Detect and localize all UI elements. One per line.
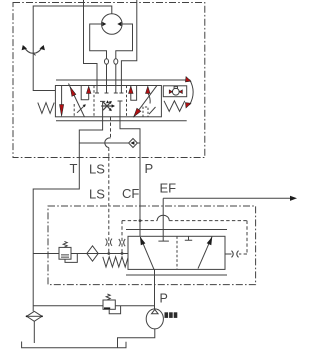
- junction node CF/LS: [139, 219, 142, 222]
- crossed flow arrows (center neutral position): [101, 102, 113, 110]
- position divider left: [93, 86, 95, 117]
- variable orifice diagonal (left section): [69, 84, 85, 118]
- coupling notch on wire B: [105, 59, 109, 64]
- dashed LS pilot box: [121, 221, 123, 253]
- flow path P to EF (throttled closed): [198, 237, 212, 269]
- check valve: [129, 139, 138, 148]
- throttled diagonal (right section): [133, 86, 156, 118]
- blocked EF port bar: [158, 240, 169, 242]
- check valve bypass line: [79, 142, 140, 144]
- wire from top edge to valve left outer port: [84, 0, 98, 86]
- pump name label: [165, 312, 169, 318]
- main valve lower housing line: [56, 120, 187, 122]
- LS control line horizontal: [33, 253, 128, 255]
- red arrow left section down: [61, 86, 63, 105]
- svg-text:P: P: [160, 291, 168, 305]
- pump suction wire: [118, 329, 155, 348]
- red arrow (right section U): [129, 86, 134, 93]
- LS pilot line from valve (dashed with hop): [110, 117, 112, 138]
- LS damping throttle (on CF-side dashed line): [119, 239, 125, 246]
- main directional valve body: [55, 86, 161, 117]
- port stub A with plug: [95, 86, 99, 94]
- priority valve position divider: [176, 236, 178, 269]
- svg-text:LS: LS: [89, 187, 105, 202]
- relief branch line: [33, 305, 154, 307]
- position divider right: [126, 86, 128, 117]
- wire motor right to valve port C: [116, 24, 133, 86]
- svg-text:T: T: [70, 161, 78, 176]
- LS pilot line between units: [108, 158, 110, 254]
- steering wheel symbol: [24, 47, 43, 54]
- junction node LS line 2: [121, 252, 124, 255]
- dashed pilot passage (right section): [143, 107, 148, 117]
- P port stub with plug (center): [118, 101, 123, 117]
- wire from top edge to valve right outer port: [121, 0, 136, 86]
- priority valve upper housing line: [126, 229, 227, 231]
- blocked port U (right section): [131, 86, 137, 101]
- system relief valve: [103, 300, 115, 309]
- rotary actuation curved arrow (right): [190, 80, 194, 106]
- port stub D with plug: [119, 86, 123, 94]
- chain-line enclosure box U1 (steering unit boundary): [13, 3, 205, 158]
- wire steering loop left (motor top to valve left side): [33, 6, 112, 91]
- wire T from valve to port T: [79, 117, 102, 158]
- wire T return to filter: [33, 158, 79, 312]
- EF wire down into priority valve: [162, 198, 164, 241]
- wire P from valve to port P: [120, 117, 140, 158]
- T port stub with plug (center): [100, 101, 105, 116]
- svg-text:EF: EF: [160, 180, 177, 195]
- port stub C with plug: [114, 86, 118, 94]
- gear pump: [146, 309, 163, 329]
- priority valve lower housing line: [126, 274, 227, 276]
- orifice cross line (left): [77, 105, 85, 113]
- tank: [22, 342, 126, 348]
- blocked port (right section): [185, 236, 192, 240]
- LS damping throttle (right, on dashed): [232, 251, 239, 258]
- coupling notch on wire C: [114, 59, 118, 64]
- orifice cross (right): [149, 107, 156, 114]
- short dashed passage (left section): [73, 104, 75, 117]
- chain-line enclosure box U2 (priority valve unit boundary): [48, 206, 256, 285]
- main valve upper housing line: [56, 79, 187, 81]
- wire motor left to valve port B: [90, 24, 107, 86]
- priority valve body: [128, 236, 225, 269]
- flow path P to CF: [140, 237, 154, 269]
- pilot rotor symbol: [172, 88, 179, 95]
- LS relief valve: [59, 247, 71, 259]
- suction filter diamond: [27, 311, 42, 321]
- blocked port U (left section): [81, 86, 89, 100]
- red arrow (left section, up): [88, 93, 90, 100]
- svg-text:CF: CF: [122, 186, 139, 201]
- junction node LS line 1: [107, 252, 110, 255]
- centering spring left: [38, 103, 54, 114]
- svg-text:LS: LS: [89, 161, 105, 176]
- EF outlet line with arrow: [163, 197, 290, 199]
- red arrow (right section) with curved tail: [148, 93, 150, 104]
- hydraulic motor (gerotor metering unit): [102, 14, 123, 35]
- P supply wire from priority valve to pump: [154, 269, 156, 309]
- wire filter to tank: [33, 321, 35, 343]
- LS filter diamond: [87, 246, 98, 261]
- port stub B with plug: [105, 86, 109, 94]
- pilot section box (right end): [163, 86, 186, 97]
- centering spring right: [164, 101, 185, 112]
- CF supply wire (to steering P port): [139, 158, 141, 237]
- priority valve spring: [103, 257, 128, 267]
- LS damping throttle (on LS dashed line): [106, 239, 112, 246]
- svg-text:P: P: [145, 161, 154, 176]
